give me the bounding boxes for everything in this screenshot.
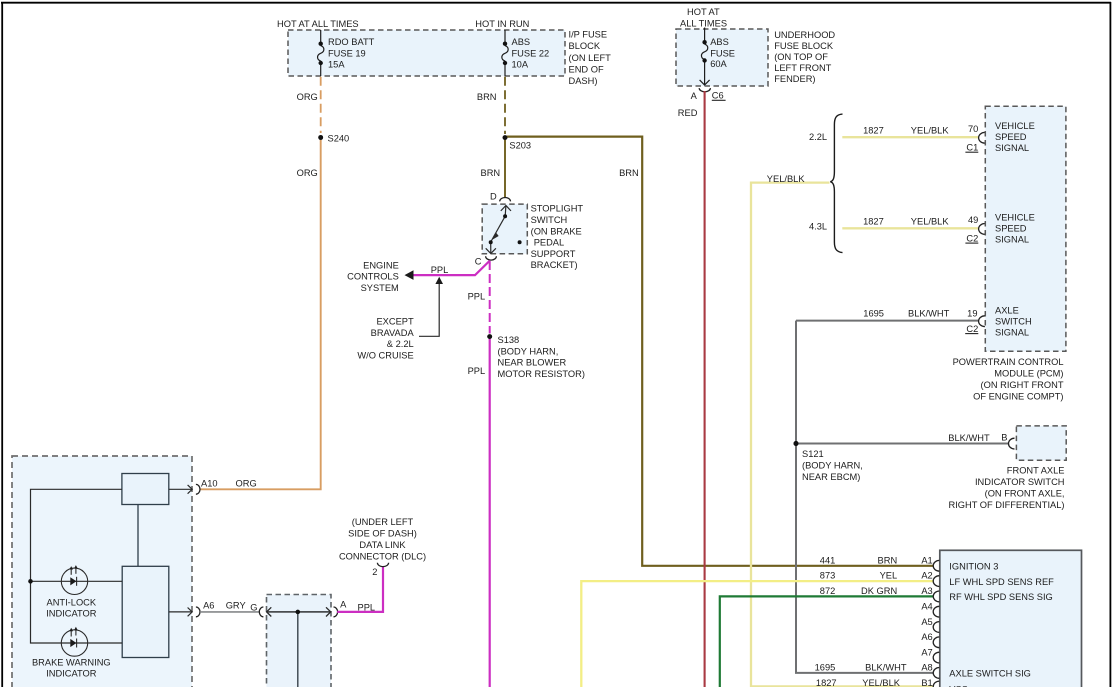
svg-text:ALL TIMES: ALL TIMES xyxy=(680,18,727,28)
svg-text:EXCEPT: EXCEPT xyxy=(376,317,414,327)
svg-text:ANTI-LOCK: ANTI-LOCK xyxy=(47,597,97,607)
svg-text:B1: B1 xyxy=(921,678,932,687)
svg-text:DASH): DASH) xyxy=(569,76,598,86)
svg-text:RDO BATT: RDO BATT xyxy=(328,37,375,47)
svg-text:FUSE: FUSE xyxy=(710,48,735,58)
svg-text:RF WHL SPD SENS SIG: RF WHL SPD SENS SIG xyxy=(949,592,1053,602)
svg-text:1695: 1695 xyxy=(815,663,836,673)
svg-text:ORG: ORG xyxy=(236,478,257,488)
svg-text:& 2.2L: & 2.2L xyxy=(387,339,414,349)
svg-text:A6: A6 xyxy=(203,601,214,611)
page border frame left xyxy=(1,2,3,687)
svg-text:SIGNAL: SIGNAL xyxy=(995,234,1029,244)
svg-text:1827: 1827 xyxy=(863,126,884,136)
svg-text:I/P FUSE: I/P FUSE xyxy=(569,29,608,39)
junction dot overlay cluster xyxy=(28,579,32,583)
anti-lock indicator LED xyxy=(61,567,87,594)
pin arc front axle switch B xyxy=(1009,438,1015,449)
svg-text:RIGHT OF DIFFERENTIAL): RIGHT OF DIFFERENTIAL) xyxy=(948,500,1064,510)
svg-text:S240: S240 xyxy=(328,133,350,143)
wire 1827 YEL/BLK 4.3L to PCM pin 49 C2 xyxy=(842,227,979,229)
wire BRN 441 from S203 to EBCM A1 xyxy=(505,137,934,566)
svg-text:2.2L: 2.2L xyxy=(809,132,827,142)
svg-text:C2: C2 xyxy=(966,233,978,243)
svg-text:A: A xyxy=(691,91,698,101)
svg-text:SPEED: SPEED xyxy=(995,132,1027,142)
svg-text:PPL: PPL xyxy=(468,366,486,376)
pin arc A6 xyxy=(196,607,200,617)
svg-text:GRY: GRY xyxy=(226,601,246,611)
svg-text:SYSTEM: SYSTEM xyxy=(361,283,399,293)
wire ORG solid down to A10 row xyxy=(200,140,321,489)
wire PPL from pin C to engine controls arrow xyxy=(408,261,490,276)
svg-text:873: 873 xyxy=(820,571,836,581)
svg-text:ORG: ORG xyxy=(297,92,318,102)
page border frame right xyxy=(1109,2,1111,687)
svg-text:RED: RED xyxy=(678,108,698,118)
svg-text:UNDERHOOD: UNDERHOOD xyxy=(774,30,835,40)
splice dot overlay S203 xyxy=(503,135,508,140)
svg-text:YEL/BLK: YEL/BLK xyxy=(767,174,806,184)
svg-text:(BODY HARN,: (BODY HARN, xyxy=(498,346,559,356)
svg-text:MOTOR RESISTOR): MOTOR RESISTOR) xyxy=(498,369,585,379)
svg-text:BRN: BRN xyxy=(619,168,639,178)
splice S203 xyxy=(503,135,508,140)
svg-text:S203: S203 xyxy=(509,140,531,150)
EBCM pins A4-A7 xyxy=(921,602,932,658)
DLC caption xyxy=(339,517,426,561)
svg-text:VEHICLE: VEHICLE xyxy=(995,212,1035,222)
svg-text:CONTROLS: CONTROLS xyxy=(347,272,399,282)
svg-text:1827: 1827 xyxy=(863,217,884,227)
svg-text:C: C xyxy=(475,257,482,267)
svg-text:BLK/WHT: BLK/WHT xyxy=(865,663,907,673)
svg-text:PPL: PPL xyxy=(431,265,449,275)
svg-text:BRACKET): BRACKET) xyxy=(531,260,578,270)
svg-text:2: 2 xyxy=(372,567,377,577)
svg-text:FENDER): FENDER) xyxy=(774,74,815,84)
wire RED down from C6 xyxy=(704,91,706,687)
svg-text:A6: A6 xyxy=(921,632,932,642)
stoplight switch box xyxy=(482,204,527,254)
svg-text:W/O CRUISE: W/O CRUISE xyxy=(357,350,413,360)
pin arc PCM 19/C2 xyxy=(979,316,985,327)
wire DK GRN 872 to EBCM A3 xyxy=(720,596,934,687)
splice dot overlay S138 xyxy=(487,334,492,339)
fuse ABS FUSE 60A xyxy=(700,28,710,86)
svg-text:FRONT AXLE: FRONT AXLE xyxy=(1007,466,1065,476)
pin arc G xyxy=(259,607,263,617)
svg-text:BRAVADA: BRAVADA xyxy=(371,328,415,338)
svg-text:BLK/WHT: BLK/WHT xyxy=(908,309,950,319)
brake warning indicator LED xyxy=(61,629,87,656)
svg-text:(ON FRONT AXLE,: (ON FRONT AXLE, xyxy=(985,489,1065,499)
svg-text:(UNDER LEFT: (UNDER LEFT xyxy=(352,517,414,527)
cluster pin A10 wire and arrow xyxy=(169,488,192,490)
svg-text:STOPLIGHT: STOPLIGHT xyxy=(531,204,584,214)
svg-text:PPL: PPL xyxy=(468,291,486,301)
svg-text:HOT AT: HOT AT xyxy=(687,7,720,17)
stoplight switch contacts and blade xyxy=(486,206,511,254)
wire 1695 BLK/WHT PCM pin 19 C2 to S121 xyxy=(796,320,979,322)
svg-text:(ON BRAKE: (ON BRAKE xyxy=(531,226,582,236)
cluster pin A6 wire and arrow xyxy=(169,611,192,613)
svg-text:(ON RIGHT FRONT: (ON RIGHT FRONT xyxy=(981,380,1064,390)
EBCM box xyxy=(940,550,1082,687)
brace for 2.2L / 4.3L engine split xyxy=(830,114,842,253)
svg-text:NEAR EBCM): NEAR EBCM) xyxy=(802,472,860,482)
svg-text:SWITCH: SWITCH xyxy=(531,215,568,225)
svg-text:A: A xyxy=(340,599,347,609)
svg-text:S138: S138 xyxy=(498,335,520,345)
svg-text:IGNITION 3: IGNITION 3 xyxy=(949,562,998,572)
PCM box xyxy=(985,106,1066,351)
callout EXCEPT BRAVADA & 2.2L W/O CRUISE xyxy=(357,317,414,361)
cluster internal wires xyxy=(31,489,123,643)
instrument cluster box xyxy=(12,456,192,687)
svg-text:DK GRN: DK GRN xyxy=(861,586,897,596)
splice dot overlay S121 xyxy=(794,441,799,446)
DLC junction node xyxy=(296,610,300,614)
svg-text:INDICATOR: INDICATOR xyxy=(46,609,97,619)
EBCM row labels A8 1695 BLK/WHT xyxy=(815,663,933,673)
I/P fuse block box xyxy=(277,19,611,86)
pin arc A xyxy=(334,607,338,617)
svg-text:YEL/BLK: YEL/BLK xyxy=(862,678,901,687)
svg-text:LF WHL SPD SENS REF: LF WHL SPD SENS REF xyxy=(949,577,1054,587)
junction dot overlay DLC xyxy=(296,610,300,614)
cluster internal module box top xyxy=(122,474,169,505)
svg-text:A10: A10 xyxy=(201,478,218,488)
svg-text:A1: A1 xyxy=(921,555,932,565)
splice dot overlay S240 xyxy=(318,135,323,140)
connector arc pin 2 xyxy=(377,563,388,567)
svg-text:FUSE 19: FUSE 19 xyxy=(328,48,366,58)
EBCM pin arcs A1-A8,B1 xyxy=(933,560,939,687)
svg-text:1827: 1827 xyxy=(816,678,837,687)
svg-text:ENGINE: ENGINE xyxy=(363,260,399,270)
svg-text:INDICATOR SWITCH: INDICATOR SWITCH xyxy=(975,477,1065,487)
splice S121 xyxy=(794,441,799,446)
svg-text:49: 49 xyxy=(968,215,978,225)
fuse RDO BATT FUSE 19 15A xyxy=(318,30,324,76)
DLC internal wire with arrows xyxy=(267,611,331,613)
EBCM row labels A1 441 BRN xyxy=(820,555,933,565)
svg-text:HOT IN RUN: HOT IN RUN xyxy=(475,19,529,29)
svg-text:INDICATOR: INDICATOR xyxy=(46,669,97,679)
svg-text:60A: 60A xyxy=(710,59,727,69)
svg-text:10A: 10A xyxy=(512,60,529,70)
svg-text:END OF: END OF xyxy=(569,64,604,74)
page border frame top xyxy=(1,2,1111,4)
svg-text:MODULE (PCM): MODULE (PCM) xyxy=(994,368,1063,378)
wire YEL 873 to EBCM A2 xyxy=(581,581,933,687)
pin arc PCM 49/C2 xyxy=(979,224,985,235)
EBCM row labels B1 1827 YEL/BLK xyxy=(816,678,933,687)
cluster internal module box bottom xyxy=(122,566,169,657)
svg-text:SPEED: SPEED xyxy=(995,223,1027,233)
svg-text:872: 872 xyxy=(820,586,836,596)
stoplight switch pin D arc xyxy=(500,197,511,201)
svg-text:A5: A5 xyxy=(921,617,932,627)
svg-text:SWITCH: SWITCH xyxy=(995,316,1032,326)
svg-text:BRN: BRN xyxy=(481,168,501,178)
svg-text:A4: A4 xyxy=(921,602,932,612)
svg-text:C2: C2 xyxy=(966,324,978,334)
svg-text:G: G xyxy=(250,602,257,612)
svg-text:ORG: ORG xyxy=(297,168,318,178)
svg-text:AXLE SWITCH SIG: AXLE SWITCH SIG xyxy=(949,669,1031,679)
wire from DLC junction down xyxy=(297,612,299,687)
svg-text:19: 19 xyxy=(967,309,977,319)
svg-text:C1: C1 xyxy=(966,142,978,152)
EBCM row labels A2 873 YEL xyxy=(820,571,933,581)
wire YEL/BLK from brace to EBCM B1 xyxy=(751,183,934,687)
svg-text:BRN: BRN xyxy=(477,92,497,102)
wire 1827 YEL/BLK 2.2L to PCM pin 70 C1 xyxy=(842,136,979,138)
front axle indicator switch box xyxy=(1016,426,1066,460)
svg-text:YEL/BLK: YEL/BLK xyxy=(911,217,950,227)
svg-text:(ON LEFT: (ON LEFT xyxy=(569,53,612,63)
link between cluster modules xyxy=(137,505,139,567)
wire GRY A6 to DLC pin G xyxy=(200,611,259,613)
svg-text:FUSE BLOCK: FUSE BLOCK xyxy=(774,41,834,51)
connector C6 arc xyxy=(699,88,710,92)
svg-text:A8: A8 xyxy=(921,663,932,673)
svg-text:ABS: ABS xyxy=(710,37,729,47)
fuse ABS FUSE 22 10A xyxy=(502,30,508,76)
svg-text:SUPPORT: SUPPORT xyxy=(531,249,576,259)
svg-text:C6: C6 xyxy=(712,91,724,101)
svg-text:SIGNAL: SIGNAL xyxy=(995,143,1029,153)
svg-text:D: D xyxy=(490,191,497,201)
wire PPL solid from S138 to bottom xyxy=(489,339,491,687)
wire PPL DLC pin A up to DLC connector pin 2 xyxy=(337,567,383,612)
svg-text:BRAKE WARNING: BRAKE WARNING xyxy=(32,657,111,667)
splice S240 xyxy=(318,135,323,140)
wire PPL dashed from pin C to S138 xyxy=(489,261,491,334)
svg-text:BLK/WHT: BLK/WHT xyxy=(948,433,990,443)
svg-text:HOT AT ALL TIMES: HOT AT ALL TIMES xyxy=(277,19,359,29)
svg-text:(ON TOP OF: (ON TOP OF xyxy=(774,52,828,62)
wire BLK/WHT S121 down to EBCM A8 xyxy=(796,321,934,673)
svg-text:LEFT FRONT: LEFT FRONT xyxy=(774,63,831,73)
svg-text:OF ENGINE COMPT): OF ENGINE COMPT) xyxy=(973,391,1063,401)
svg-text:A7: A7 xyxy=(921,647,932,657)
wire BRN dashed from fuse 22 xyxy=(504,77,506,134)
svg-text:AXLE: AXLE xyxy=(995,305,1019,315)
svg-text:PEDAL: PEDAL xyxy=(534,238,565,248)
stoplight switch pin C arc xyxy=(486,256,497,260)
wire BLK/WHT S121 to front axle indicator switch pin B xyxy=(796,443,1009,445)
svg-text:DATA LINK: DATA LINK xyxy=(359,540,406,550)
svg-text:FUSE 22: FUSE 22 xyxy=(512,48,550,58)
node ENGINE CONTROLS SYSTEM xyxy=(347,260,399,293)
svg-text:A3: A3 xyxy=(921,586,932,596)
svg-text:SIGNAL: SIGNAL xyxy=(995,327,1029,337)
svg-text:PPL: PPL xyxy=(358,602,376,612)
svg-text:ABS: ABS xyxy=(512,37,531,47)
wire ORG dashed from fuse 19 xyxy=(320,77,322,133)
EBCM internal labels xyxy=(949,562,1054,687)
svg-text:4.3L: 4.3L xyxy=(809,222,827,232)
svg-text:441: 441 xyxy=(820,555,836,565)
wire BRN S203 down to stoplight switch pin D xyxy=(504,140,506,197)
svg-text:YEL/BLK: YEL/BLK xyxy=(911,126,950,136)
underhood fuse block box xyxy=(676,7,835,86)
arrowhead to engine controls system xyxy=(405,270,414,280)
EBCM row labels A3 872 DK GRN xyxy=(820,586,933,596)
svg-text:B: B xyxy=(1001,432,1007,442)
svg-text:YEL: YEL xyxy=(880,571,898,581)
svg-text:BRN: BRN xyxy=(878,555,898,565)
svg-text:VEHICLE: VEHICLE xyxy=(995,121,1035,131)
pin arc A10 xyxy=(196,484,200,494)
svg-text:S121: S121 xyxy=(802,449,824,459)
svg-text:A2: A2 xyxy=(921,571,932,581)
DLC box xyxy=(267,595,332,687)
svg-text:POWERTRAIN CONTROL: POWERTRAIN CONTROL xyxy=(953,357,1064,367)
svg-text:15A: 15A xyxy=(328,60,345,70)
svg-text:1695: 1695 xyxy=(863,309,884,319)
svg-text:70: 70 xyxy=(968,124,978,134)
svg-text:SIDE OF DASH): SIDE OF DASH) xyxy=(348,529,417,539)
splice S138 xyxy=(487,334,492,339)
svg-text:NEAR BLOWER: NEAR BLOWER xyxy=(498,358,567,368)
svg-text:CONNECTOR (DLC): CONNECTOR (DLC) xyxy=(339,551,426,561)
svg-text:BLOCK: BLOCK xyxy=(569,41,601,51)
pin arc PCM 70/C1 xyxy=(979,132,985,143)
svg-text:(BODY HARN,: (BODY HARN, xyxy=(802,461,863,471)
